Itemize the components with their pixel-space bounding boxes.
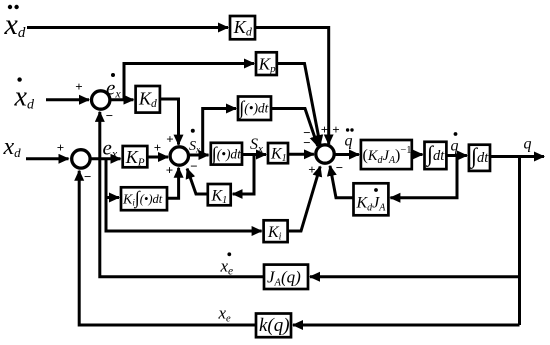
- wire Kp1 diagonal to big sum: [277, 64, 320, 146]
- block int1 box: [238, 97, 271, 121]
- wire K1a to big sum: [288, 153, 314, 156]
- svg-text:Sx: Sx: [189, 139, 200, 155]
- wire q-dot intdt1 to intdt2: [446, 154, 467, 157]
- label KdJAdot: [356, 188, 387, 213]
- svg-text:+: +: [332, 122, 339, 137]
- block Kp1 box: [256, 52, 277, 75]
- block K1b box: [208, 184, 231, 205]
- wire JA(q) feedback to sum1: [100, 112, 264, 277]
- block intdt1 box: [425, 142, 447, 169]
- wire sx-dot branch up to int1: [203, 109, 236, 156]
- label q: [524, 136, 532, 153]
- block KdJAdot box: [354, 183, 389, 215]
- wire xdd input: [27, 26, 228, 29]
- wire xd-dot input: [46, 98, 89, 101]
- svg-text:ex: ex: [106, 76, 121, 101]
- block Ki box: [264, 220, 288, 242]
- svg-text:xe: xe: [218, 304, 232, 325]
- label q-dd: [345, 128, 354, 149]
- wire q feedback down: [518, 157, 521, 326]
- block int2 box: [211, 143, 242, 165]
- block Kd1 box: [230, 16, 255, 39]
- wire KP2 to sum2: [147, 156, 168, 159]
- svg-text:JA(q): JA(q): [267, 268, 301, 289]
- svg-text:+: +: [321, 122, 328, 137]
- block Kd2 box: [136, 86, 160, 113]
- wire KdJA-1 to intdt1: [412, 153, 423, 156]
- wire ex from sum3 to KP2: [91, 157, 121, 160]
- svg-text:+: +: [57, 140, 64, 155]
- sum junction big: [316, 145, 334, 163]
- block k(q) box: [256, 314, 291, 338]
- svg-text:q: q: [524, 136, 532, 153]
- svg-text:k(q): k(q): [259, 315, 290, 336]
- sum junction 2: [170, 147, 188, 165]
- wire xd input: [26, 157, 69, 160]
- label ex-dot: [106, 73, 121, 101]
- svg-text:−: −: [303, 135, 310, 150]
- wire Ki diagonal to big sum: [288, 167, 320, 232]
- svg-text:−: −: [190, 159, 197, 174]
- svg-text:q: q: [345, 133, 353, 150]
- block JA(q) box: [264, 265, 308, 289]
- wire ex branch down: [106, 159, 262, 231]
- wire int1 diagonal to big sum: [271, 109, 318, 147]
- label sx-dot: [189, 129, 200, 155]
- wire sx-dot from sum2 to int2: [189, 154, 209, 157]
- block Ki-int box: [121, 187, 167, 210]
- wire q to k(q): [293, 324, 520, 327]
- label xd-dot: [14, 77, 35, 112]
- label ex: [103, 136, 118, 161]
- sum junction 1: [92, 91, 110, 109]
- wire KdJAdot diagonal to big sum: [330, 166, 353, 198]
- wire K1b diagonal to sum2: [187, 169, 208, 194]
- block intdt2 box: [469, 145, 490, 171]
- block K1a box: [268, 143, 288, 163]
- wire Sx from int2 to K1a: [242, 153, 266, 156]
- label q-dot: [451, 132, 459, 154]
- label Sx: [250, 136, 263, 155]
- svg-text:−: −: [336, 160, 343, 175]
- wire q to JA(q): [310, 275, 520, 278]
- wire ex-dot branch up to Kp1: [124, 64, 254, 100]
- wire q-dd from big sum to KdJA-1: [334, 153, 359, 156]
- svg-text:−: −: [84, 169, 91, 184]
- wire q output: [490, 155, 544, 158]
- svg-text:ex: ex: [103, 136, 118, 161]
- svg-text:xd: xd: [3, 134, 22, 160]
- label xe-dot: [220, 252, 234, 277]
- label xdd: [4, 5, 26, 41]
- svg-text:q: q: [451, 138, 459, 155]
- sum junction 3: [72, 150, 90, 168]
- wire q-dot branch down to KdJAdot: [390, 156, 457, 198]
- svg-text:−: −: [106, 108, 113, 123]
- svg-text:+: +: [166, 163, 173, 178]
- wire Kd2 to sum2 top: [160, 99, 179, 145]
- wire Ki-int up to sum2: [167, 168, 179, 199]
- wire ex branch to Ki-int: [106, 196, 119, 199]
- wire ex-dot from sum1 to Kd2: [110, 98, 133, 101]
- svg-text:+: +: [75, 79, 82, 94]
- svg-text:Sx: Sx: [250, 136, 263, 155]
- wire Kd1 to big sum: [255, 28, 329, 145]
- block KP2 box: [123, 146, 148, 167]
- svg-text:+: +: [308, 162, 315, 177]
- label xd: [3, 134, 22, 160]
- svg-text:+: +: [154, 140, 161, 155]
- wire Sx branch down to K1b: [233, 155, 254, 195]
- wire k(q) feedback to sum3: [79, 171, 256, 325]
- label xe: [218, 304, 232, 325]
- svg-text:xd: xd: [14, 82, 35, 113]
- block KdJA-1 box: [361, 140, 412, 169]
- svg-text:xe: xe: [220, 257, 234, 278]
- svg-text:xd: xd: [4, 8, 26, 41]
- svg-text:+: +: [166, 132, 173, 147]
